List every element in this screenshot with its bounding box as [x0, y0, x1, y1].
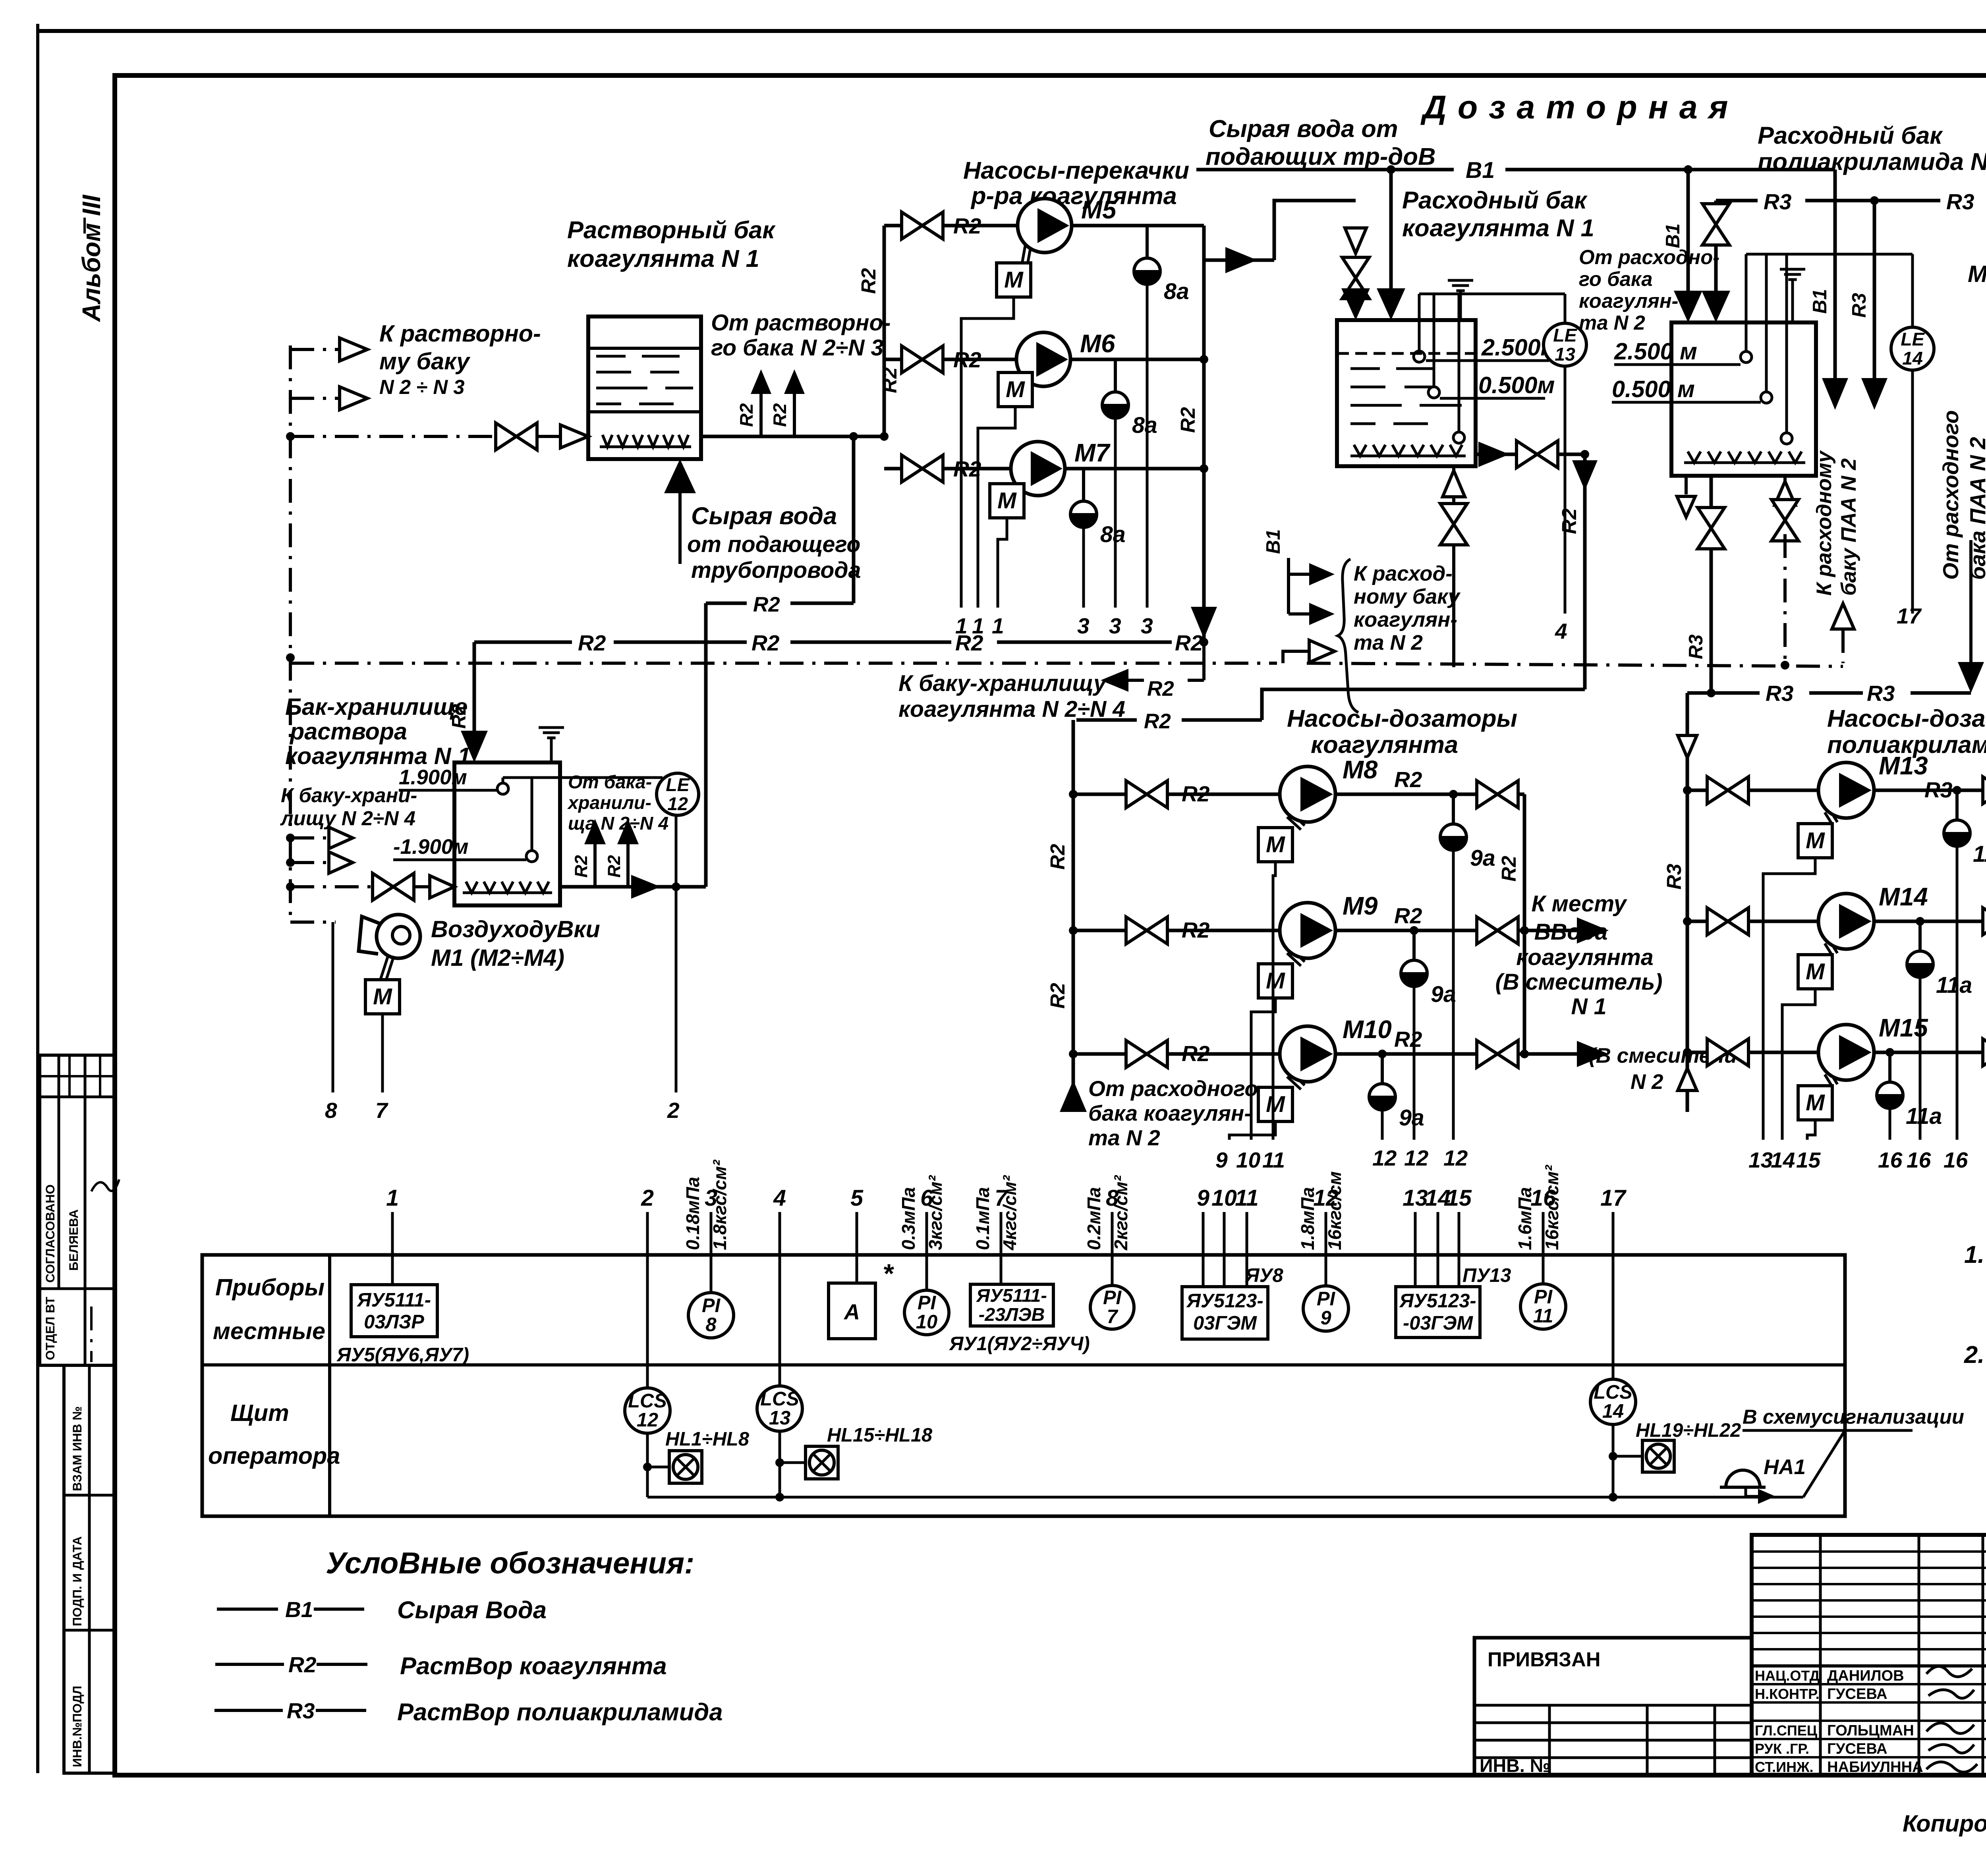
instrument PI9 pos 12: [1303, 1255, 1348, 1331]
svg-text:R2: R2: [572, 855, 591, 878]
svg-text:Приборы: Приборы: [215, 1274, 325, 1301]
indicator 8a M5: [1134, 226, 1189, 638]
wire outlet M13: [1874, 786, 1986, 795]
svg-text:трубопровода: трубопровода: [691, 558, 861, 583]
instrument LE14: [1891, 254, 1934, 370]
label воздуходувки М1 (М2-М4): [431, 916, 600, 971]
title block main: [1752, 1535, 1986, 1775]
valve inlet M9: [1126, 917, 1167, 944]
svg-text:12: 12: [1372, 1146, 1397, 1170]
label Альбом III: [77, 194, 106, 322]
wire M5-M7 discharge riser: [1177, 226, 1217, 642]
valve outlet расходный бак N1: [1517, 441, 1558, 468]
instrument LE12: [657, 773, 699, 815]
valve inlet M5: [902, 212, 943, 239]
svg-text:Щит: Щит: [230, 1399, 289, 1426]
svg-text:10: 10: [1236, 1148, 1261, 1172]
label level 2.500м tank N1: [1426, 334, 1558, 361]
svg-text:R2: R2: [1394, 903, 1422, 928]
svg-text:Насосы-дозаторы: Насосы-дозаторы: [1287, 705, 1517, 732]
label насосы-перекачки р-ра коагулянта: [963, 157, 1189, 210]
signal column 2: [641, 1185, 654, 1255]
label к расходному баку коагулянта N2: [1338, 559, 1461, 712]
signal column 10: [1211, 1185, 1237, 1255]
arrow к растворному баку N2-N3 upper: [290, 338, 367, 361]
valve inlet M8: [1126, 781, 1167, 808]
signal column 6: [898, 1175, 946, 1255]
svg-text:R3: R3: [1766, 681, 1794, 706]
svg-text:М: М: [1806, 959, 1825, 984]
label к растворному баку N2-N3: [379, 320, 541, 398]
svg-text:9: 9: [1320, 1307, 1331, 1329]
blower воздуходувки М1: [290, 915, 420, 958]
svg-text:8а: 8а: [1164, 279, 1189, 304]
svg-text:СОГЛАСОВАНО: СОГЛАСОВАНО: [43, 1184, 57, 1283]
svg-text:R2: R2: [1046, 844, 1069, 870]
ground symbol расходный бак N1: [1448, 280, 1473, 320]
wire B1 drop to расходный бак N1: [1377, 170, 1405, 320]
svg-text:ВВода: ВВода: [1534, 919, 1608, 945]
stamp column lower section: [64, 1365, 115, 1773]
svg-text:К баку-храни-: К баку-храни-: [281, 784, 417, 807]
svg-text:R2: R2: [1182, 1041, 1210, 1066]
tank ПАА N1 R3 outlet down: [1685, 476, 1725, 693]
svg-text:коагулянта: коагулянта: [1311, 731, 1458, 759]
level probes бак ПАА N1: [1741, 254, 1913, 444]
label R3 on M13 outlet: [1924, 778, 1953, 802]
arrow к растворному баку N2-N3 lower: [290, 387, 367, 410]
svg-text:Сырая Вода: Сырая Вода: [397, 1596, 547, 1624]
arrow к баку-хранилищу upper: [286, 827, 353, 849]
ground symbol бак-хранилище: [539, 728, 564, 762]
wire ПАА supply from бак N2: [1969, 540, 1972, 666]
svg-text:М7: М7: [1074, 439, 1111, 467]
svg-text:R3: R3: [1685, 635, 1707, 659]
label сырая вода от подающих тр-дов: [1206, 115, 1435, 170]
label бак-хранилище раствора коагулянта N1: [285, 693, 471, 769]
svg-text:Мешалка: Мешалка: [1968, 261, 1986, 287]
svg-text:16: 16: [1943, 1148, 1968, 1172]
svg-text:ИНВ.№ПОДЛ: ИНВ.№ПОДЛ: [70, 1686, 84, 1767]
indicator 9a M9: [1401, 930, 1456, 1140]
svg-text:R3: R3: [1924, 778, 1953, 802]
svg-text:2кгс/см²: 2кгс/см²: [1111, 1175, 1131, 1251]
wire воздуходувки signal 8: [325, 922, 337, 1123]
svg-text:М9: М9: [1343, 892, 1378, 920]
legend R2 раствор коагулянта: [215, 1652, 667, 1680]
svg-text:8: 8: [325, 1098, 337, 1123]
wire ПАА feed drop arrow: [1958, 540, 1984, 693]
svg-text:N 2 ÷ N 3: N 2 ÷ N 3: [379, 376, 465, 398]
wire к баку-хранилищу R2: [1101, 642, 1204, 701]
pump M9: [1280, 892, 1378, 966]
signal column 12: [1297, 1171, 1345, 1255]
label расходный бак коагулянта N1: [1402, 187, 1594, 242]
motor box M13: [1798, 824, 1832, 858]
label 1.900м: [399, 766, 497, 790]
svg-text:Н.КОНТР.: Н.КОНТР.: [1755, 1686, 1820, 1702]
wire outlet M14: [1874, 917, 1986, 926]
svg-text:R2: R2: [857, 268, 880, 294]
svg-text:12: 12: [667, 793, 688, 814]
svg-text:ПРИВЯЗАН: ПРИВЯЗАН: [1488, 1648, 1600, 1671]
check arrow into бак-хранилище: [430, 876, 454, 898]
wire M15 motor signal 15: [1807, 1120, 1815, 1140]
tank бак-хранилище: [454, 762, 560, 905]
wire R3 branch to расходному баку ПАА N2: [1849, 196, 1887, 410]
ground symbol бак ПАА N1: [1780, 269, 1805, 322]
svg-text:10: 10: [916, 1311, 937, 1333]
note 2 комплектно с установкой ПАА: [1964, 1328, 1986, 1368]
wire бак-хранилище outlet R2: [560, 432, 858, 899]
device box АУ5123-03ГЭМ pos 9-11: [1182, 1255, 1284, 1339]
legend title условные обозначения: [326, 1546, 694, 1580]
svg-text:От расходного: От расходного: [1088, 1076, 1258, 1101]
svg-text:R3: R3: [1849, 293, 1870, 318]
svg-text:коагулянта N 1: коагулянта N 1: [567, 245, 759, 272]
arrow dash-dot to расходному баку коагулянта N2: [1283, 640, 1335, 663]
svg-text:2.500 м: 2.500 м: [1614, 338, 1697, 365]
arrow fill расходный бак N1 left: [1341, 288, 1370, 320]
instrument PI10 pos 6: [904, 1255, 949, 1335]
arrow к баку-хранилищу lower: [286, 852, 353, 873]
wire M8 motor signal 11: [1273, 862, 1275, 1140]
label в схему сигнализации: [1743, 1405, 1964, 1430]
svg-text:0.500 м: 0.500 м: [1612, 376, 1695, 402]
svg-text:М1 (М2÷М4): М1 (М2÷М4): [431, 944, 564, 971]
svg-text:подающих тр-доВ: подающих тр-доВ: [1206, 143, 1435, 170]
svg-text:9: 9: [1215, 1148, 1228, 1172]
indicator 9a M10: [1369, 1054, 1424, 1140]
svg-text:ГУСЕВА: ГУСЕВА: [1827, 1685, 1887, 1702]
instrument LCS14 pos 17: [1590, 1255, 1636, 1502]
arrow сырая вода into растворный бак: [664, 459, 696, 564]
svg-text:HL15÷HL18: HL15÷HL18: [827, 1424, 933, 1446]
wire M13 motor signal 13: [1763, 858, 1815, 1140]
label от расходного бака ПАА N2 (vertical): [1938, 410, 1986, 580]
wire signal LE13 to pos 4: [1555, 366, 1567, 643]
svg-text:15: 15: [1446, 1185, 1472, 1211]
indicator 11a M13: [1944, 790, 1986, 1140]
svg-text:РастВор полиакриламида: РастВор полиакриламида: [397, 1698, 723, 1726]
svg-text:9а: 9а: [1431, 982, 1456, 1007]
svg-text:03ГЭМ: 03ГЭМ: [1193, 1312, 1257, 1334]
svg-text:Сырая вода: Сырая вода: [691, 502, 837, 530]
svg-text:М: М: [1004, 267, 1024, 293]
instrument LE13: [1544, 294, 1586, 366]
svg-text:11а: 11а: [1906, 1104, 1942, 1129]
level probes бак-хранилище: [497, 778, 663, 862]
svg-text:R2: R2: [953, 214, 981, 238]
svg-text:М: М: [1806, 1090, 1825, 1116]
wire растворный бак outlet R2: [701, 432, 889, 441]
labels 9 10 11 signal tails: [1215, 1148, 1285, 1172]
svg-text:1.8мПа: 1.8мПа: [1297, 1187, 1318, 1250]
svg-text:-23ЛЭВ: -23ЛЭВ: [979, 1304, 1045, 1325]
svg-text:4: 4: [773, 1185, 786, 1211]
valve inlet растворный бак: [496, 423, 537, 450]
svg-text:9: 9: [1197, 1185, 1209, 1211]
signal column 16: [1515, 1164, 1562, 1255]
svg-text:4: 4: [1555, 619, 1567, 643]
svg-text:13: 13: [1748, 1148, 1773, 1172]
svg-text:3: 3: [1109, 614, 1121, 638]
svg-text:9а: 9а: [1470, 845, 1495, 871]
svg-text:PI: PI: [1534, 1286, 1553, 1308]
label level 2.500м ПАА: [1614, 338, 1741, 365]
svg-text:PI: PI: [1103, 1287, 1122, 1309]
svg-text:От бака-: От бака-: [568, 772, 652, 792]
instrument table frame: [202, 1255, 1845, 1516]
svg-text:-03ГЭМ: -03ГЭМ: [1403, 1312, 1473, 1334]
svg-text:17: 17: [1600, 1185, 1627, 1211]
wire inlet M14: [1687, 920, 1818, 923]
svg-text:0.500м: 0.500м: [1478, 372, 1555, 398]
svg-text:LCS: LCS: [628, 1390, 667, 1412]
valve outlet M14: [1983, 908, 1986, 935]
svg-text:му баку: му баку: [379, 348, 471, 374]
device box АУ5123-03ГЭМ pos 13-15: [1396, 1255, 1511, 1338]
wire inlet M13: [1687, 789, 1818, 792]
svg-text:R2: R2: [1144, 710, 1171, 733]
signal column 7: [972, 1175, 1020, 1255]
svg-text:р-ра коагулянта: р-ра коагулянта: [970, 182, 1177, 210]
wire outlet M9: [1335, 903, 1524, 935]
svg-text:ДАНИЛОВ: ДАНИЛОВ: [1827, 1667, 1904, 1684]
valve бак-хранилище inlet: [373, 873, 414, 900]
labels 12 12 12 signal tails: [1372, 1146, 1468, 1170]
wire inlet M5: [884, 224, 1018, 228]
wire inlet M15: [1687, 1051, 1818, 1054]
svg-text:К месту: К месту: [1531, 891, 1627, 917]
tank ПАА N1 left drain: [1677, 476, 1695, 517]
svg-text:3: 3: [1077, 614, 1090, 638]
pump M14: [1818, 883, 1928, 956]
label к баку-хранилищу коагулянта N2-N4: [898, 671, 1125, 722]
valve inlet M10: [1126, 1040, 1167, 1067]
svg-text:R2: R2: [955, 631, 983, 655]
wire outlet M10: [1335, 1027, 1524, 1058]
wire R2 dozer feed line C: [1076, 689, 1585, 733]
signal column 9: [1197, 1185, 1209, 1255]
signal column 1: [386, 1185, 399, 1255]
svg-text:R2: R2: [752, 631, 780, 655]
motor box M7: [990, 484, 1024, 518]
svg-text:R3: R3: [1946, 189, 1974, 214]
svg-text:13: 13: [769, 1407, 790, 1429]
check valve into расходный бак N1: [1345, 228, 1366, 253]
wire R2 dozer manifold riser: [1046, 720, 1078, 1112]
valve inlet M14: [1707, 908, 1748, 935]
svg-text:12: 12: [637, 1409, 658, 1431]
svg-text:R2: R2: [1182, 918, 1210, 942]
valve inlet M7: [902, 455, 943, 482]
svg-text:В1: В1: [1466, 158, 1495, 183]
lamp HL15-HL18: [775, 1424, 933, 1479]
svg-text:СТ.ИНЖ.: СТ.ИНЖ.: [1755, 1759, 1814, 1775]
svg-text:ОТДЕЛ ВТ: ОТДЕЛ ВТ: [43, 1297, 57, 1360]
wire B1 to расходному баку коагулянта N2: [1263, 529, 1335, 625]
motor box M9: [1258, 964, 1292, 998]
svg-text:15: 15: [1796, 1148, 1821, 1172]
title Дозаторная: [1420, 89, 1739, 125]
svg-text:16: 16: [1878, 1148, 1903, 1172]
wire B1 main: [1196, 158, 1835, 183]
wire outlet M15: [1874, 1048, 1986, 1057]
svg-text:8: 8: [705, 1314, 717, 1336]
svg-text:R3: R3: [1663, 864, 1685, 890]
svg-text:от подающего: от подающего: [687, 532, 860, 557]
svg-text:1: 1: [992, 614, 1004, 638]
motor box M6: [998, 372, 1032, 407]
svg-text:R2: R2: [1147, 677, 1174, 701]
svg-text:R2: R2: [605, 855, 624, 878]
svg-text:-1.900м: -1.900м: [393, 835, 469, 859]
svg-text:PI: PI: [1317, 1288, 1336, 1310]
wire R3 PAA manifold riser: [1663, 693, 1697, 1112]
svg-text:3: 3: [1141, 614, 1153, 638]
check arrow into растворный бак: [560, 425, 588, 448]
arrow R2 от бака-хранилища (1): [572, 819, 606, 887]
label расходный бак полиакриламида N1: [1758, 122, 1986, 176]
svg-text:го бака: го бака: [1579, 268, 1653, 290]
svg-text:LE: LE: [666, 774, 690, 795]
svg-text:оператора: оператора: [208, 1442, 340, 1469]
tank растворный бак коагулянта N1: [588, 317, 701, 459]
signal column 11: [1235, 1185, 1258, 1255]
svg-text:16кгс/см²: 16кгс/см²: [1542, 1164, 1562, 1250]
wire inlet M7: [884, 467, 1011, 471]
svg-text:РУК .ГР.: РУК .ГР.: [1755, 1741, 1809, 1757]
wire M14 motor signal 14: [1782, 989, 1815, 1140]
svg-text:Растворный бак: Растворный бак: [567, 216, 776, 244]
svg-text:От расходно-: От расходно-: [1579, 246, 1719, 268]
wire M9 motor signal 10: [1251, 998, 1275, 1140]
svg-text:бака коагулян-: бака коагулян-: [1088, 1101, 1252, 1125]
svg-text:БЕЛЯЕВА: БЕЛЯЕВА: [66, 1209, 81, 1271]
label к расходному баку ПАА N2 (vertical): [1812, 450, 1860, 596]
svg-text:УслоВные обозначения:: УслоВные обозначения:: [326, 1546, 694, 1580]
wire inlet M8: [1073, 793, 1280, 796]
legend R3 раствор полиакриламида: [214, 1698, 723, 1726]
svg-text:коагулянта N 2÷N 4: коагулянта N 2÷N 4: [898, 697, 1125, 722]
svg-text:Насосы-дозаторы: Насосы-дозаторы: [1827, 705, 1986, 732]
svg-text:М: М: [1806, 828, 1825, 853]
svg-text:16: 16: [1907, 1148, 1931, 1172]
svg-text:ПУ13: ПУ13: [1462, 1265, 1511, 1286]
wire outlet расходный бак N1: [1476, 442, 1589, 467]
svg-text:R2: R2: [1497, 856, 1520, 882]
label в смеситель N2 coagulant: [1589, 1044, 1737, 1094]
svg-text:РастВор коагулянта: РастВор коагулянта: [400, 1652, 667, 1680]
svg-text:ГЛ.СПЕЦ: ГЛ.СПЕЦ: [1755, 1722, 1818, 1739]
label насосы-дозаторы коагулянта: [1287, 705, 1517, 759]
svg-text:местные: местные: [213, 1318, 325, 1344]
pump M13: [1818, 752, 1928, 825]
label копировал Боброва: [1903, 1810, 1986, 1839]
signal column 5: [850, 1185, 864, 1255]
pump M5: [1018, 196, 1117, 266]
signal column 8: [1084, 1175, 1131, 1255]
wire R3 drop into бак ПАА N1: [1702, 201, 1730, 322]
svg-text:коагулянта: коагулянта: [1516, 945, 1653, 970]
svg-text:М: М: [1006, 377, 1025, 402]
svg-text:2: 2: [641, 1185, 654, 1211]
instrument LCS12 pos 2: [625, 1255, 670, 1497]
svg-text:14: 14: [1771, 1148, 1795, 1172]
wire R2 drop to бак-хранилище: [448, 642, 488, 762]
svg-text:М6: М6: [1080, 330, 1115, 358]
svg-text:хранили-: хранили-: [567, 792, 651, 813]
valve outlet M13: [1983, 777, 1986, 804]
svg-text:14: 14: [1602, 1401, 1624, 1422]
svg-text:Насосы-перекачки: Насосы-перекачки: [963, 157, 1189, 184]
device box А pos 5: [829, 1255, 894, 1339]
svg-text:PI: PI: [702, 1295, 721, 1316]
svg-text:М8: М8: [1343, 756, 1378, 784]
svg-text:R2: R2: [753, 593, 780, 616]
svg-text:КопироВал: БоброВа: КопироВал: БоброВа: [1903, 1810, 1986, 1837]
indicator 8a M6: [1102, 359, 1157, 638]
valve inlet M6: [902, 346, 943, 373]
valve R3 into бак ПАА N1: [1702, 204, 1729, 245]
bell HA1: [1720, 1455, 1806, 1504]
svg-text:М: М: [1266, 1092, 1285, 1117]
label насосы-дозаторы полиакриламида: [1827, 705, 1986, 759]
svg-text:ВоздуходуВки: ВоздуходуВки: [431, 916, 600, 942]
signal column 3: [682, 1160, 730, 1255]
svg-text:0.1мПа: 0.1мПа: [972, 1187, 993, 1250]
wire R2 transfer line A: [474, 631, 1208, 655]
signal column 17: [1600, 1185, 1627, 1255]
svg-text:ЯУ8: ЯУ8: [1244, 1265, 1284, 1286]
svg-text:HL1÷HL8: HL1÷HL8: [665, 1428, 750, 1450]
svg-text:11: 11: [1235, 1185, 1258, 1211]
svg-text:НА1: НА1: [1764, 1455, 1806, 1479]
svg-text:та N 2: та N 2: [1579, 311, 1645, 334]
svg-text:А: А: [843, 1299, 860, 1324]
valve into расходный бак N1: [1342, 257, 1369, 299]
svg-text:1. Номера позиций приборов со: 1. Номера позиций приборов соотВет-: [1964, 1241, 1986, 1268]
svg-text:8а: 8а: [1132, 413, 1157, 438]
svg-text:0.3мПа: 0.3мПа: [898, 1187, 919, 1250]
svg-text:Расходный бак: Расходный бак: [1758, 122, 1943, 149]
svg-text:R2: R2: [1394, 767, 1422, 792]
motor box M8: [1258, 828, 1292, 862]
svg-text:R3: R3: [1764, 189, 1792, 214]
label щит оператора: [208, 1399, 340, 1469]
svg-text:11: 11: [1262, 1148, 1285, 1172]
indicator 11a M14: [1907, 921, 1972, 1140]
signal column 4: [773, 1185, 786, 1255]
label R2 inlet M6: [953, 347, 981, 372]
label R2 inlet M8: [1182, 782, 1210, 806]
wire B1 branch to расходному баку ПАА N2: [1809, 170, 1848, 410]
svg-text:ГОЛЬЦМАН: ГОЛЬЦМАН: [1827, 1722, 1914, 1739]
motor box M5: [997, 263, 1031, 297]
svg-text:ЯУ1(ЯУ2÷ЯУЧ): ЯУ1(ЯУ2÷ЯУЧ): [949, 1333, 1090, 1355]
title block привязан: [1474, 1638, 1752, 1776]
label приборы местные: [213, 1274, 325, 1344]
svg-text:13: 13: [1555, 344, 1575, 365]
svg-text:М: М: [373, 984, 392, 1009]
svg-text:3кгс/см²: 3кгс/см²: [925, 1175, 946, 1250]
motor box M14: [1798, 955, 1832, 989]
arrow R2 from растворный бак N2 (1): [736, 369, 771, 436]
svg-text:ИНВ. №: ИНВ. №: [1480, 1755, 1551, 1776]
labels 16 16 16 signal tails: [1878, 1148, 1968, 1172]
pump M7: [1011, 439, 1111, 496]
